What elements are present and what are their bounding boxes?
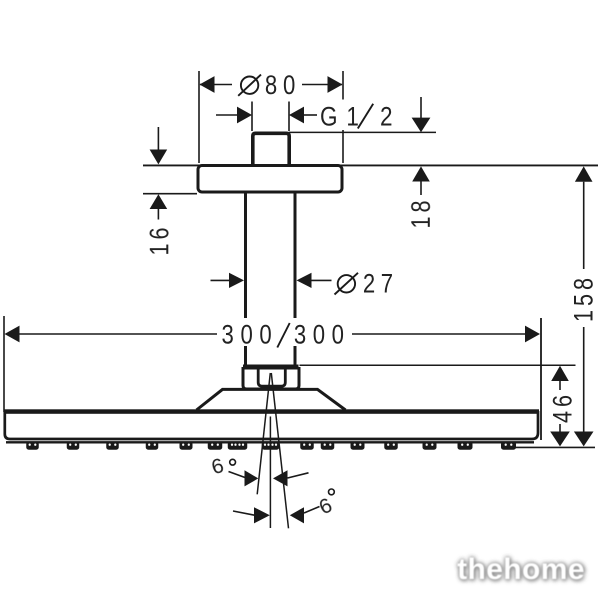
svg-text:6: 6 [209, 454, 227, 479]
svg-text:2: 2 [363, 269, 375, 299]
svg-text:0: 0 [259, 321, 271, 351]
dimension 16 [145, 127, 175, 256]
ceiling line [143, 164, 598, 166]
svg-text:0: 0 [332, 321, 344, 351]
svg-text:3: 3 [222, 321, 234, 351]
svg-text:2: 2 [380, 103, 393, 132]
svg-text:G: G [320, 103, 338, 132]
flange (ceiling plate) [198, 166, 342, 193]
svg-text:7: 7 [381, 269, 393, 299]
svg-text:18: 18 [407, 196, 437, 228]
svg-text:1: 1 [346, 103, 359, 132]
dimension 158 [569, 166, 599, 446]
spray center line [269, 417, 271, 529]
svg-text:0: 0 [283, 71, 295, 101]
nut [243, 367, 299, 389]
head top line [4, 409, 540, 414]
dimension 46 [300, 365, 579, 446]
watermark thehome [457, 552, 586, 587]
angle dimension upper 6deg [209, 454, 309, 486]
dimension G1/2 [216, 97, 436, 132]
svg-text:0: 0 [313, 321, 325, 351]
dimension 300/300 [4, 316, 541, 440]
bottom extension line [514, 446, 595, 448]
svg-text:3: 3 [294, 321, 306, 351]
nozzles [26, 442, 516, 450]
head body [5, 411, 538, 439]
stub G1/2 connector [253, 133, 289, 165]
svg-text:8: 8 [265, 71, 277, 101]
spray line right [271, 373, 288, 528]
svg-text:46: 46 [548, 391, 578, 423]
angle dimension lower 6deg [233, 489, 336, 523]
nozzle rail [6, 441, 534, 443]
svg-text:6: 6 [316, 494, 336, 520]
pipe union bar [243, 365, 299, 370]
spray line left [257, 373, 270, 494]
ceiling tick bottom left [143, 193, 197, 195]
nut inner cup [258, 370, 285, 387]
trapezoid [197, 389, 346, 410]
svg-text:16: 16 [145, 223, 175, 255]
svg-text:158: 158 [569, 274, 599, 322]
svg-text:thehome: thehome [457, 553, 585, 586]
dimension 18 [407, 166, 437, 228]
dimension Ø27 [211, 269, 394, 299]
pipe [246, 194, 296, 366]
svg-text:0: 0 [240, 321, 252, 351]
dimension Ø80 [199, 71, 343, 163]
